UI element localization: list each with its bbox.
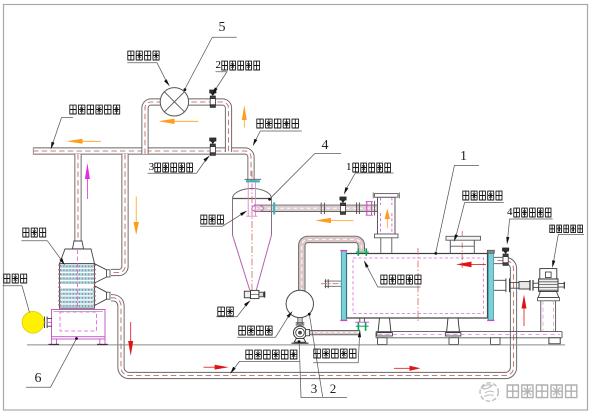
boiler vertical centerline (red dash-dot) (417, 248, 419, 322)
heat exchanger tube core (59, 264, 94, 309)
wire pipe B: heat exchanger upper outlet up to main header (111, 154, 125, 273)
leader+shelf for label 废气排放管道 (51, 118, 73, 150)
label 废气排放管道 (exhaust discharge duct) (69, 104, 121, 122)
label 除尘器 (dust collector) (200, 214, 225, 232)
boiler support leg left (378, 318, 391, 333)
wire pipe A: exhaust down to heat exchanger inlet (74, 154, 81, 241)
furnace base box (magenta) (52, 310, 106, 340)
equipment base skid rails (376, 331, 562, 333)
wire pipe: main exhaust header to cyclone (33, 151, 251, 182)
wire pipe: heater to pump stub (oil line) (297, 318, 302, 325)
heat exchanger inlet collar (73, 241, 84, 249)
wire pipe: pump outlet to boiler oil inlet (306, 330, 360, 335)
flow arrow magenta up (exchanger feed) (85, 163, 90, 199)
circulating pump (2/3) (294, 326, 307, 339)
flow arrow orange left (bypass near fan) (159, 119, 199, 124)
leader+shelf for label 蝶阀 (216, 300, 250, 317)
valve: No.3 electric butterfly valve (210, 138, 216, 155)
flange pair right of No.1 valve (356, 203, 358, 215)
motor stand frame (538, 291, 559, 297)
wire pipe: boiler left side nozzle (325, 281, 346, 287)
flow arrow red down (left drop to return loop) (128, 322, 133, 356)
boiler stack (flue connection to boiler top) (378, 197, 396, 234)
boiler bottom oil inlet fitting (green) (359, 318, 361, 322)
item number 1 (460, 150, 467, 164)
pump suction flange (296, 322, 305, 324)
skid foot blocks (378, 338, 388, 345)
label 1号电动蝶阀 (346, 162, 392, 180)
leader+shelf for item number 2 (308, 313, 347, 398)
heat exchanger lower hopper (95, 286, 107, 306)
main exhaust pipe open end cap (32, 148, 34, 155)
leader+shelf for item number 1 (434, 166, 479, 255)
label 3号电动蝶阀 (149, 162, 195, 180)
leader+shelf for label 废蒸汽管道 (253, 131, 302, 146)
label 电加热炉 (electric heating furnace) (238, 325, 274, 343)
logo icon 绿色大视野 globe (476, 379, 502, 405)
label 主动力电机 (boiler drive motor) (462, 190, 504, 208)
label 导热油出口 (oil outlet) (380, 274, 422, 292)
leader+shelf for label 2号电动蝶阀 (212, 72, 227, 95)
item number 4 (322, 139, 329, 153)
leader+shelf for label 3号电动蝶阀 (148, 155, 210, 173)
heat exchanger vertical centerline (magenta dash) (77, 250, 79, 338)
flange pair on outlet pipe x=321 (320, 203, 322, 214)
main power motor body (right) (539, 279, 558, 292)
cyclone inner vortex tube (247, 182, 249, 217)
leader+shelf for label 高压风机 (127, 63, 169, 86)
boiler support leg right (447, 318, 460, 333)
label 废蒸汽管道 (waste steam duct) (256, 118, 300, 136)
flange on boiler side nozzle (325, 279, 327, 288)
item number 3 (311, 382, 318, 395)
ground line (27, 344, 565, 346)
label 导热油进口 (oil inlet) (313, 348, 357, 366)
valve: No.1 electric butterfly valve (340, 197, 346, 214)
leader+shelf for label 导热油进口 (313, 330, 361, 363)
boiler inner dashed jacket (353, 258, 484, 314)
flow arrow red right (return loop right) (394, 366, 421, 371)
leader+shelf for item number 4 (268, 153, 341, 200)
flow arrow red right (return loop left) (204, 365, 229, 370)
wire pipe: bypass loop with fan (left riser, top run, right riser) (145, 102, 229, 154)
wire pipe: cyclone gas outlet to boiler stack (254, 205, 377, 212)
cyclone cone (233, 235, 250, 290)
item number 2 (330, 382, 337, 395)
leader+shelf for label 导热油出口 (364, 260, 421, 287)
flow arrow orange left (main header) (67, 139, 102, 144)
stack tee opening (378, 205, 394, 212)
motor top box (540, 269, 557, 279)
cyclone vertical centerline (red dash-dot) (251, 171, 253, 292)
valve: No.4 electric butterfly valve (503, 248, 509, 265)
leader+shelf for label 4号电动蝶阀 (506, 219, 552, 245)
label 2号电动蝶阀 (216, 60, 262, 78)
leader+shelf for item number 5 (184, 37, 237, 91)
label 燃烧机 (burner) (3, 273, 28, 291)
boiler right end flange (cyan) (488, 251, 493, 321)
flow arrow orange up (boiler stack) (385, 209, 390, 229)
boiler shell (347, 254, 488, 319)
flange pair at stack tee (374, 201, 376, 216)
flow arrow red up (right riser to valve 4) (522, 295, 527, 327)
heat exchanger upper hopper (95, 264, 107, 283)
item number 5 (219, 21, 226, 35)
cyclone bottom discharge valve (244, 291, 250, 298)
boiler left end flange (cyan) (341, 251, 346, 321)
boiler manhole centerline (red dash-dot) (461, 231, 463, 268)
burner (yellow) (22, 311, 44, 333)
leader+shelf for item number 3 (298, 340, 322, 397)
leader+shelf for label 主动力电机 (boiler) (454, 203, 504, 242)
wire pipe: electric heater outlet to boiler top (oil line) (302, 239, 362, 292)
label 换热器 (heat exchanger) (22, 227, 47, 245)
cyclone inlet flange (cyan) (246, 180, 260, 182)
cyclone body (cylinder) (232, 199, 234, 236)
label 高温蒸汽管道 (high temp steam pipe) (245, 349, 298, 367)
pump base (294, 339, 306, 343)
label 蝶阀 (butterfly valve) (217, 306, 235, 324)
motor output shaft right (558, 283, 565, 285)
heat exchanger top hood (60, 249, 95, 264)
leader+shelf for label 高温蒸汽管道 (230, 361, 299, 374)
label 4号电动蝶阀 (507, 207, 553, 225)
centerline of side nozzle (red dash-dot) (321, 283, 354, 285)
boiler top oil outlet fitting (green) (357, 248, 359, 256)
leader+shelf for label 换热器 (22, 241, 65, 266)
leader+shelf for label 主动力电机 (right) (552, 234, 584, 268)
cyclone dome (233, 189, 272, 199)
electric heater vessel (circle) (286, 290, 313, 317)
flow arrow red left (inside boiler top) (456, 262, 486, 268)
label 主动力电机 (right motor) (549, 224, 584, 242)
cyclone outlet ellipse inside body (252, 205, 264, 212)
label 高压风机 (high pressure fan) (127, 50, 161, 68)
leader+shelf for item number 6 (26, 337, 78, 387)
valve: No.2 electric butterfly valve (210, 90, 216, 107)
flow arrow orange up (right riser) (242, 105, 247, 128)
magenta spool fitting on outlet pipe (366, 202, 368, 216)
leader+shelf for label 除尘器 (200, 211, 247, 227)
boiler manhole nozzle (446, 236, 481, 240)
leader+shelf for label 电加热炉 (237, 311, 293, 337)
fan (high pressure blower) circle 5 (160, 88, 188, 116)
motor pedestal (549, 338, 560, 344)
item number 6 (35, 372, 42, 386)
logo text 绿色大视野 (watermark) (506, 384, 582, 400)
flange ticks near cyclone outlet (273, 202, 275, 214)
flow arrow orange down (pipe B) (134, 197, 139, 236)
leader+shelf for label 1号电动蝶阀 (344, 173, 394, 195)
furnace base legs (52, 339, 57, 345)
leader+shelf for label 燃烧机 (3, 286, 30, 313)
flow arrow orange left (cyclone outlet) (315, 218, 354, 223)
shaft from boiler to motor (494, 279, 506, 281)
wire pipe: bottom return loop (exchanger drain to No.4 valve / boiler) (111, 261, 514, 376)
burner nozzle stub (44, 317, 46, 329)
